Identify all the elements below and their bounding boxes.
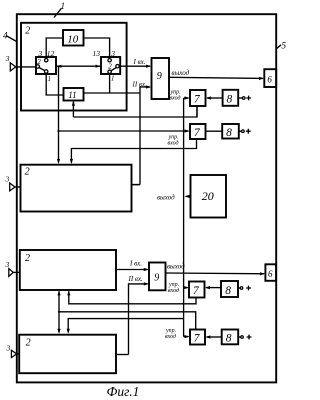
svg-text:3: 3: [5, 54, 10, 63]
svg-text:вход: вход: [170, 95, 181, 102]
svg-text:2: 2: [37, 58, 41, 66]
svg-text:3: 3: [6, 344, 11, 353]
svg-text:вход: вход: [165, 333, 176, 340]
svg-text:2: 2: [108, 63, 112, 71]
svg-text:2: 2: [25, 253, 30, 264]
svg-text:9: 9: [154, 273, 159, 284]
svg-text:9: 9: [157, 71, 162, 82]
svg-text:13: 13: [93, 49, 101, 58]
svg-text:II вх.: II вх.: [128, 275, 144, 283]
svg-text:3: 3: [5, 260, 10, 269]
svg-text:5: 5: [282, 41, 287, 51]
svg-text:6: 6: [267, 75, 272, 85]
svg-text:1: 1: [111, 75, 115, 83]
svg-text:11: 11: [68, 90, 76, 100]
svg-text:8: 8: [226, 127, 232, 139]
svg-text:10: 10: [67, 34, 79, 46]
svg-text:I вх.: I вх.: [133, 58, 146, 66]
svg-text:3: 3: [38, 49, 43, 58]
svg-text:6: 6: [268, 269, 273, 279]
svg-text:вход: вход: [168, 140, 179, 147]
svg-text:выход: выход: [157, 193, 175, 201]
svg-text:12: 12: [47, 49, 55, 58]
svg-text:8: 8: [227, 93, 233, 105]
svg-text:I вх.: I вх.: [129, 260, 142, 268]
svg-text:Фиг.1: Фиг.1: [107, 384, 140, 399]
svg-text:8: 8: [226, 333, 232, 345]
svg-text:II вх.: II вх.: [132, 81, 148, 89]
svg-text:выход: выход: [172, 69, 190, 77]
svg-text:2: 2: [25, 166, 30, 177]
svg-text:вход: вход: [168, 287, 179, 294]
svg-text:8: 8: [225, 285, 231, 297]
svg-text:выход: выход: [167, 263, 185, 271]
svg-text:2: 2: [25, 26, 30, 37]
svg-text:2: 2: [26, 337, 31, 348]
svg-text:3: 3: [110, 49, 115, 58]
svg-text:3: 3: [5, 175, 10, 184]
svg-text:1: 1: [48, 75, 52, 83]
svg-text:20: 20: [202, 189, 214, 203]
